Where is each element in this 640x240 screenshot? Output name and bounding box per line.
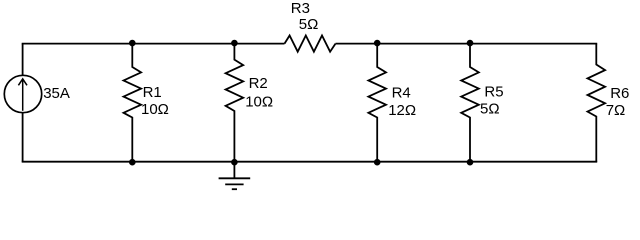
wire top bus left segment	[22, 43, 285, 45]
node dot R5 top	[467, 40, 474, 47]
wire top bus right segment	[336, 43, 598, 45]
node dot R2 top	[231, 40, 238, 47]
node dot R4 top	[374, 40, 381, 47]
svg-text:R1: R1	[143, 84, 162, 101]
wire left branch upper	[22, 44, 24, 76]
svg-text:7Ω: 7Ω	[606, 102, 626, 119]
svg-text:5Ω: 5Ω	[299, 16, 319, 33]
svg-text:10Ω: 10Ω	[245, 94, 273, 111]
node dot R4 bottom	[374, 159, 381, 166]
resistor R3 (horizontal)	[285, 36, 336, 52]
resistor R5	[461, 44, 479, 162]
node dot R1 bottom	[129, 159, 136, 166]
node dot R1 top	[129, 40, 136, 47]
resistor R6	[588, 44, 606, 162]
current source I1 circle	[4, 75, 41, 112]
wire left branch lower	[22, 113, 24, 162]
current source I1 arrow	[18, 79, 27, 111]
svg-text:R2: R2	[249, 75, 268, 92]
node dot R2/ground bottom	[231, 159, 238, 166]
svg-text:10Ω: 10Ω	[141, 101, 169, 118]
resistor R2	[226, 44, 244, 162]
node dot R5 bottom	[467, 159, 474, 166]
svg-text:35A: 35A	[43, 85, 70, 102]
svg-text:R3: R3	[291, 0, 310, 17]
svg-text:R4: R4	[392, 84, 411, 101]
wire bottom bus	[22, 161, 598, 163]
svg-text:R5: R5	[484, 83, 503, 100]
svg-text:R6: R6	[610, 85, 629, 102]
svg-text:12Ω: 12Ω	[388, 102, 416, 119]
ground	[219, 162, 251, 190]
resistor R1	[124, 44, 142, 162]
svg-text:5Ω: 5Ω	[480, 100, 500, 117]
resistor R4	[368, 44, 386, 162]
